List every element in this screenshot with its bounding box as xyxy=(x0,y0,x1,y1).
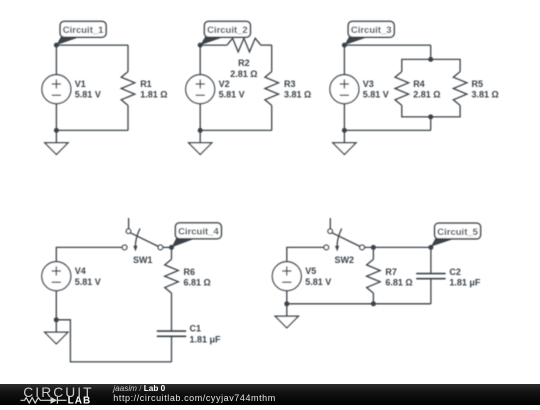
svg-text:SW2: SW2 xyxy=(335,255,355,265)
wire top-left Circuit_2 xyxy=(200,44,227,46)
resistor R4 xyxy=(395,72,409,106)
wire right Circuit_1 xyxy=(127,45,129,72)
svg-text:6.81 Ω: 6.81 Ω xyxy=(385,278,412,288)
URL text xyxy=(113,393,275,403)
svg-text:1.81 μF: 1.81 μF xyxy=(190,334,222,344)
svg-text:V5: V5 xyxy=(305,266,316,276)
node junction top bar Circuit_3 xyxy=(428,57,433,62)
svg-text:LAB: LAB xyxy=(68,396,92,406)
wire bottom Circuit_5 xyxy=(287,303,431,305)
label SW2 xyxy=(335,255,355,265)
svg-text:R6: R6 xyxy=(184,267,196,277)
wire source top Circuit_5 xyxy=(287,247,324,261)
wire right Circuit_2 xyxy=(271,45,273,72)
svg-text:5.81 V: 5.81 V xyxy=(363,90,389,100)
wire R6 to C1 xyxy=(171,293,173,331)
wire source bottom Circuit_5 xyxy=(286,291,288,304)
node label Circuit_2 xyxy=(200,21,250,45)
wire source bottom Circuit_4 xyxy=(55,291,57,320)
label SW1 xyxy=(133,255,153,265)
svg-text:Circuit_3: Circuit_3 xyxy=(351,25,392,36)
svg-text:R5: R5 xyxy=(472,79,484,89)
svg-text:C1: C1 xyxy=(190,324,202,334)
node junction R7 bottom Circuit_5 xyxy=(371,301,376,306)
svg-text:5.81 V: 5.81 V xyxy=(219,90,245,100)
voltage source V1 xyxy=(42,75,71,104)
wire from parallel pair Circuit_3 xyxy=(430,117,432,130)
wire bottom bar Circuit_3 xyxy=(402,105,460,117)
node junction bottom Circuit_1 xyxy=(54,128,59,133)
node junction bottom Circuit_3 xyxy=(342,128,347,133)
wire source bottom Circuit_3 xyxy=(343,104,345,131)
wire source bottom Circuit_1 xyxy=(55,104,57,131)
wire top-right Circuit_2 xyxy=(261,44,272,46)
resistor R1 xyxy=(121,72,135,106)
capacitor C2 xyxy=(416,274,445,279)
label V2 value 5.81 V xyxy=(219,79,245,100)
label R5 value 3.81 Ω xyxy=(472,79,499,100)
resistor R5 xyxy=(453,72,467,106)
node label Circuit_1 xyxy=(56,21,106,45)
svg-text:1.81 μF: 1.81 μF xyxy=(449,278,481,288)
label R3 value 3.81 Ω xyxy=(284,79,311,100)
ground Circuit_2 xyxy=(189,130,212,154)
svg-text:2.81 Ω: 2.81 Ω xyxy=(230,69,257,79)
wire top bar Circuit_3 xyxy=(402,59,460,71)
title text jaasim / Lab 0 xyxy=(112,384,165,393)
ground Circuit_3 xyxy=(333,130,356,154)
wire switch to C2 Circuit_5 xyxy=(364,246,431,248)
wire source bottom Circuit_2 xyxy=(199,104,201,131)
switch SW2 xyxy=(324,218,365,251)
svg-text:R7: R7 xyxy=(385,267,397,277)
ground Circuit_1 xyxy=(45,130,68,154)
wire C2 bottom Circuit_5 xyxy=(430,279,432,304)
wire top Circuit_3 xyxy=(344,44,430,46)
wire to parallel pair Circuit_3 xyxy=(430,45,432,59)
svg-text:2.81 Ω: 2.81 Ω xyxy=(413,90,440,100)
svg-text:1.81 Ω: 1.81 Ω xyxy=(140,90,167,100)
label R4 value 2.81 Ω xyxy=(413,79,440,100)
wire bottom Circuit_3 xyxy=(344,129,430,131)
label C2 value 1.81 µF xyxy=(449,267,481,288)
svg-text:R4: R4 xyxy=(413,79,425,89)
resistor R3 xyxy=(265,72,279,106)
svg-text:R2: R2 xyxy=(238,58,250,68)
resistor R2 xyxy=(227,38,261,52)
voltage source V2 xyxy=(186,75,215,104)
node junction top Circuit_2 xyxy=(198,43,203,48)
label V5 value 5.81 V xyxy=(305,266,331,287)
wire right-bottom Circuit_1 xyxy=(127,105,129,130)
svg-text:R1: R1 xyxy=(140,79,152,89)
wire bottom Circuit_1 xyxy=(56,129,128,131)
wire top Circuit_1 xyxy=(56,44,128,46)
wire bottom Circuit_2 xyxy=(200,129,272,131)
CircuitLab logo xyxy=(21,385,94,407)
voltage source V4 xyxy=(42,262,71,291)
wire C2 top Circuit_5 xyxy=(430,247,432,273)
svg-text:V4: V4 xyxy=(75,266,86,276)
label R1 value 1.81 Ω xyxy=(140,79,167,100)
svg-text:jaasim / Lab 0: jaasim / Lab 0 xyxy=(112,384,165,393)
node junction bottom bar Circuit_3 xyxy=(428,114,433,119)
svg-text:http://circuitlab.com/cyyjav74: http://circuitlab.com/cyyjav744mthm xyxy=(113,393,275,403)
wire switch to node Circuit_4 xyxy=(163,246,172,248)
label R2 value 2.81 Ω xyxy=(230,58,257,79)
wire source top Circuit_4 xyxy=(56,247,122,261)
svg-text:C2: C2 xyxy=(449,267,461,277)
node junction ground Circuit_4 xyxy=(54,317,59,322)
node junction bottom Circuit_2 xyxy=(198,128,203,133)
node label Circuit_3 xyxy=(344,21,394,45)
wire right-bottom Circuit_2 xyxy=(271,105,273,130)
wire bottom Circuit_4 xyxy=(56,320,171,362)
svg-text:V1: V1 xyxy=(75,79,86,89)
svg-text:6.81 Ω: 6.81 Ω xyxy=(184,278,211,288)
wire source top Circuit_2 xyxy=(199,45,201,75)
resistor R7 xyxy=(367,259,381,293)
svg-text:3.81 Ω: 3.81 Ω xyxy=(284,90,311,100)
svg-text:R3: R3 xyxy=(284,79,296,89)
svg-text:SW1: SW1 xyxy=(133,255,153,265)
label C1 value 1.81 µF xyxy=(190,324,222,345)
label R7 value 6.81 Ω xyxy=(385,267,412,288)
node label Circuit_4 xyxy=(172,223,222,248)
label V1 value 5.81 V xyxy=(75,79,101,100)
svg-text:V3: V3 xyxy=(363,79,374,89)
ground Circuit_5 xyxy=(275,304,298,328)
ground Circuit_4 xyxy=(45,320,68,344)
voltage source V3 xyxy=(330,75,359,104)
svg-text:3.81 Ω: 3.81 Ω xyxy=(472,90,499,100)
capacitor C1 xyxy=(157,331,186,336)
label R6 value 6.81 Ω xyxy=(184,267,211,288)
svg-text:5.81 V: 5.81 V xyxy=(305,277,331,287)
svg-text:Circuit_5: Circuit_5 xyxy=(437,227,478,238)
svg-text:Circuit_4: Circuit_4 xyxy=(178,227,219,238)
wire R7 stub Circuit_5 xyxy=(372,247,374,259)
wire source top Circuit_3 xyxy=(343,45,345,75)
svg-text:V2: V2 xyxy=(219,79,230,89)
label V3 value 5.81 V xyxy=(363,79,389,100)
svg-text:Circuit_1: Circuit_1 xyxy=(63,25,104,36)
svg-text:Circuit_2: Circuit_2 xyxy=(207,25,248,36)
node junction C2 top Circuit_5 xyxy=(428,245,433,250)
label V4 value 5.81 V xyxy=(75,266,101,287)
switch SW1 xyxy=(122,218,163,251)
wire source top Circuit_1 xyxy=(55,45,57,75)
node label Circuit_5 xyxy=(431,223,481,247)
wire R7 bottom Circuit_5 xyxy=(372,293,374,304)
resistor R6 xyxy=(165,259,179,293)
node junction R6 top Circuit_4 xyxy=(169,245,174,250)
wire C1 bottom Circuit_4 xyxy=(171,336,173,362)
node junction R7 top Circuit_5 xyxy=(371,245,376,250)
svg-text:5.81 V: 5.81 V xyxy=(75,277,101,287)
svg-text:5.81 V: 5.81 V xyxy=(75,90,101,100)
node junction top Circuit_3 xyxy=(342,43,347,48)
voltage source V5 xyxy=(272,262,301,291)
node junction top Circuit_1 xyxy=(54,43,59,48)
wire R6 stub Circuit_4 xyxy=(171,247,173,259)
node junction ground Circuit_5 xyxy=(284,301,289,306)
